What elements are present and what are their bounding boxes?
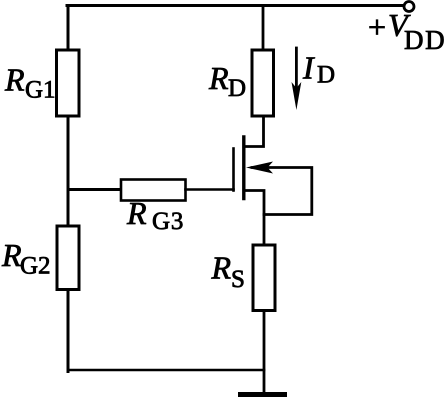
- transistor Q1 gate bar: [232, 149, 235, 191]
- terminal VDD circle: [404, 2, 414, 12]
- transistor Q1 channel bar: [242, 137, 245, 199]
- resistor RD: [252, 50, 274, 116]
- wire left rail middle: [67, 116, 70, 227]
- resistor RG2: [57, 226, 79, 290]
- svg-text:DD: DD: [404, 25, 445, 55]
- wire RD to top rail: [262, 6, 265, 51]
- wire left rail upper: [67, 6, 70, 52]
- svg-text:I: I: [302, 50, 315, 86]
- svg-text:G1: G1: [25, 77, 56, 104]
- svg-text:S: S: [231, 266, 245, 293]
- svg-text:R: R: [1, 237, 22, 273]
- svg-text:R: R: [126, 195, 147, 231]
- svg-text:D: D: [317, 62, 335, 89]
- current ID arrow head: [292, 82, 302, 110]
- wire left rail lower: [67, 290, 70, 372]
- wire top rail: [67, 4, 404, 7]
- wire RG3 to gate: [186, 188, 234, 191]
- svg-text:G3: G3: [152, 208, 184, 235]
- svg-text:G2: G2: [20, 253, 51, 280]
- transistor Q1 body arrow head: [246, 162, 273, 174]
- svg-text:R: R: [211, 250, 232, 286]
- transistor Q1 body connection loop: [252, 168, 312, 215]
- wire middle horizontal to RG3: [68, 188, 122, 191]
- svg-text:D: D: [228, 75, 246, 102]
- transistor Q1 source lead: [245, 191, 264, 246]
- svg-text:R: R: [4, 62, 25, 98]
- wire RS to ground: [263, 311, 266, 393]
- resistor RS: [253, 245, 275, 311]
- current ID arrow shaft: [295, 48, 298, 92]
- ground: [238, 392, 287, 397]
- wire bottom rail: [68, 369, 264, 372]
- resistor RG3: [121, 180, 186, 201]
- svg-text:+: +: [368, 9, 386, 45]
- svg-text:R: R: [208, 60, 229, 96]
- transistor Q1 drain lead: [244, 116, 264, 147]
- resistor RG1: [57, 50, 80, 116]
